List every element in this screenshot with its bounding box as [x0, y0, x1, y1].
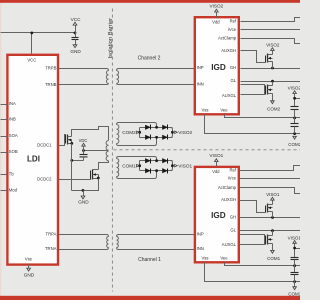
power VISO1 supply above M3 — [266, 192, 280, 200]
diode D3 — [145, 135, 151, 140]
svg-text:GND: GND — [70, 49, 81, 54]
frame bottom — [0, 296, 300, 300]
wire Vss channel2 — [205, 115, 301, 136]
wire GH rail channel1 — [240, 216, 301, 219]
svg-text:IGD: IGD — [211, 211, 226, 220]
wire GL rail channel1 — [240, 229, 301, 232]
power VISO2 supply above IGD2 — [209, 4, 223, 18]
op-amp U3 IGD chip box channel1 — [195, 167, 239, 262]
wire INP channel2 — [117, 69, 195, 71]
capacitor C6 Vee to Vss — [291, 266, 299, 282]
transformer T2 secondary winding — [117, 71, 119, 84]
diode D8 — [162, 168, 168, 173]
wire Q1 drain to primary top — [72, 127, 109, 141]
power VCC supply symbol — [71, 17, 82, 37]
svg-text:COM1: COM1 — [288, 291, 300, 296]
svg-text:GND: GND — [24, 273, 35, 278]
svg-text:TRNB: TRNB — [45, 82, 57, 87]
wire Ref channel1 — [240, 166, 301, 171]
wire GH rail channel2 — [241, 67, 301, 70]
wire INP channel1 — [117, 235, 195, 237]
transformer T1 secondary winding — [117, 237, 119, 248]
diode D1 — [145, 125, 151, 130]
wire TRNB to transformer T2 — [59, 84, 109, 85]
node LDI pin labels — [9, 57, 57, 261]
wire rectifier output channel2 — [171, 128, 174, 138]
wire Tb — [1, 174, 8, 176]
wire Vee channel1 — [225, 263, 301, 268]
ground COM1 below M4 — [267, 250, 280, 261]
svg-text:Vss: Vss — [202, 107, 209, 112]
svg-text:COM2: COM2 — [122, 130, 136, 135]
svg-text:INP: INP — [197, 232, 204, 237]
svg-text:TRPA: TRPA — [46, 232, 57, 237]
diode D7 — [145, 168, 151, 173]
svg-text:Vdd: Vdd — [212, 169, 220, 174]
svg-text:LDI: LDI — [27, 154, 40, 163]
diode D6 — [162, 158, 168, 163]
svg-text:VISO2: VISO2 — [266, 42, 280, 47]
node rectifier mid junctions channel2 — [155, 126, 158, 139]
capacitor C5 VISO1 to Vee — [291, 258, 299, 266]
wire secondary bottom lead channel1 — [117, 171, 157, 179]
wire secondary top lead channel2 — [117, 123, 157, 128]
wire INA — [1, 104, 8, 106]
svg-text:Vee: Vee — [220, 256, 228, 261]
svg-text:INP: INP — [197, 65, 204, 70]
transformer T3 secondary winding channel2 — [117, 125, 119, 144]
wire DCDC2 to Q2 gate — [59, 179, 91, 181]
svg-text:IGD: IGD — [211, 63, 226, 72]
wire secondary top lead channel1 — [117, 157, 157, 161]
svg-text:GH: GH — [230, 65, 236, 70]
wire TRPB to transformer T2 — [59, 69, 109, 71]
wire Q2 drain to primary bottom — [99, 161, 109, 170]
svg-text:INB: INB — [9, 117, 16, 122]
transistor Q2 — [91, 170, 100, 180]
svg-text:VISO1: VISO1 — [178, 163, 192, 168]
transistor Q1 — [66, 135, 74, 145]
svg-text:Ref: Ref — [229, 168, 236, 173]
node IGD2 pin labels — [197, 18, 237, 112]
svg-text:DCDC2: DCDC2 — [37, 176, 52, 181]
power VISO2 supply above M1 — [266, 42, 280, 50]
wire AUXGL channel1 — [240, 235, 265, 245]
svg-text:INN: INN — [197, 246, 204, 251]
ground GND LDI Vss — [24, 265, 35, 278]
transformer T3 primary winding A — [106, 141, 108, 151]
wire SOA — [1, 136, 8, 138]
node COM2 rectifier input — [122, 128, 141, 138]
wire VCC rail — [1, 32, 77, 54]
capacitor C2 VDC — [70, 151, 87, 162]
ground COM2 below M2 — [267, 101, 280, 112]
diode D2 — [162, 125, 168, 130]
svg-text:INN: INN — [197, 82, 204, 87]
transistor M2 aux low side channel2 — [266, 82, 273, 101]
frame top — [0, 0, 300, 3]
svg-text:VDC: VDC — [79, 138, 88, 143]
power VISO2 right column — [288, 86, 302, 107]
svg-text:AUXGL: AUXGL — [222, 242, 237, 247]
svg-text:COM2: COM2 — [267, 106, 280, 111]
wire rectifier bottom branch channel1 — [140, 170, 173, 172]
wire TRPA to transformer T1 — [59, 235, 109, 237]
svg-text:AUXGH: AUXGH — [221, 197, 236, 202]
svg-text:VISO2: VISO2 — [288, 86, 300, 91]
wire rectifier output channel1 — [171, 161, 174, 171]
wire iVce channel2 — [241, 29, 301, 31]
svg-text:INA: INA — [9, 101, 16, 106]
wire Mod — [1, 190, 8, 192]
svg-text:GH: GH — [230, 215, 236, 220]
node VISO1 rectifier output flag — [175, 163, 193, 168]
ground COM2 right column — [288, 136, 301, 147]
transistor M4 aux low side channel1 — [266, 231, 273, 251]
transformer T3 primary winding B — [106, 151, 108, 161]
wire AUXGL channel2 — [241, 85, 265, 95]
svg-text:Mod: Mod — [9, 188, 18, 193]
wire DCDC1 to Q1 gate — [59, 135, 66, 146]
svg-text:ActClamp: ActClamp — [218, 185, 237, 190]
ground GND DCDC — [78, 196, 89, 204]
wire secondary bottom lead channel2 — [117, 138, 157, 146]
svg-text:COM2: COM2 — [288, 142, 300, 147]
capacitor C4 Vee to Vss — [291, 118, 299, 134]
wire Ref channel2 — [241, 18, 301, 22]
wire GL rail channel2 — [241, 80, 301, 83]
capacitor C1 VCC bypass — [72, 38, 79, 45]
ground COM1 right column — [288, 282, 301, 297]
wire Vss channel1 — [205, 263, 301, 284]
transistor M1 aux high side channel2 — [266, 51, 273, 69]
svg-text:COM1: COM1 — [267, 256, 280, 261]
svg-text:Vss: Vss — [202, 256, 209, 261]
svg-text:SOB: SOB — [9, 149, 18, 154]
wire TRNA to transformer T1 — [59, 248, 109, 250]
ground GND top — [70, 45, 81, 54]
wire SOB — [1, 152, 8, 154]
svg-text:Ref: Ref — [230, 18, 237, 23]
wire INN channel1 — [117, 248, 195, 250]
svg-text:Channel 1: Channel 1 — [138, 257, 161, 263]
svg-text:iVce: iVce — [228, 176, 237, 181]
wire INN channel2 — [117, 84, 195, 85]
wire rectifier bottom branch channel2 — [140, 137, 173, 139]
isolation barrier dashed line — [111, 9, 113, 292]
op-amp U2 IGD chip box channel2 — [195, 17, 239, 114]
wire AUXGH channel1 — [240, 201, 266, 213]
svg-text:TRNA: TRNA — [45, 246, 57, 251]
svg-text:Vdd: Vdd — [212, 20, 220, 25]
svg-text:TRPB: TRPB — [45, 65, 56, 70]
svg-text:GND: GND — [78, 199, 89, 204]
op-amp U1 LDI chip box — [7, 55, 58, 265]
wire Q2 source to GND — [84, 179, 99, 196]
wire iVce channel1 — [240, 178, 301, 180]
wire rectifier top branch channel2 — [140, 127, 173, 129]
svg-text:VISO1: VISO1 — [209, 153, 223, 158]
svg-text:VISO1: VISO1 — [288, 235, 300, 240]
svg-text:GL: GL — [231, 78, 237, 83]
wire VDC center tap — [82, 149, 108, 152]
svg-text:VISO2: VISO2 — [178, 130, 192, 135]
svg-text:Vee: Vee — [220, 107, 228, 112]
svg-text:ActClamp: ActClamp — [218, 36, 237, 41]
power VDC supply symbol — [79, 138, 88, 151]
svg-text:COM1: COM1 — [122, 163, 136, 168]
svg-text:Isolation Barrier: Isolation Barrier — [108, 18, 114, 59]
node VISO2 rectifier output flag — [175, 130, 193, 135]
diode D5 — [145, 158, 151, 163]
transistor M3 aux high side channel1 — [266, 201, 273, 218]
wire ActClamp channel2 — [241, 39, 301, 44]
transformer T2 primary winding — [106, 71, 108, 84]
wire Vee channel2 — [225, 115, 301, 120]
transformer T3 secondary winding channel1 — [117, 159, 119, 177]
power VISO1 right column — [288, 235, 302, 257]
diode D4 — [162, 135, 168, 140]
svg-text:VCC: VCC — [71, 17, 82, 22]
svg-text:VCC: VCC — [27, 57, 36, 62]
node IGD1 pin labels — [197, 168, 237, 261]
wire source rail to Q2 — [72, 144, 85, 192]
wire AUXGH channel2 — [241, 51, 266, 63]
wire ActClamp channel1 — [240, 188, 301, 194]
node rectifier mid junctions channel1 — [155, 159, 158, 172]
svg-text:Channel 2: Channel 2 — [138, 55, 161, 61]
frame left tint — [0, 0, 2, 300]
power VISO1 supply above IGD1 — [209, 153, 223, 166]
svg-text:DCDC1: DCDC1 — [37, 142, 52, 147]
wire INB — [1, 119, 8, 121]
svg-text:Vss: Vss — [25, 256, 32, 261]
svg-text:AUXGL: AUXGL — [222, 93, 237, 98]
svg-text:iVce: iVce — [228, 27, 237, 32]
channel separator dashed line — [114, 149, 301, 151]
node COM1 rectifier input — [122, 161, 141, 171]
svg-text:Tb: Tb — [9, 172, 15, 177]
wire rectifier top branch channel1 — [140, 160, 173, 162]
transformer T1 primary winding — [107, 237, 109, 248]
svg-text:VISO2: VISO2 — [209, 4, 223, 9]
capacitor C3 VISO2 to Vee — [291, 107, 299, 118]
svg-text:GL: GL — [230, 228, 236, 233]
svg-text:VISO1: VISO1 — [266, 192, 280, 197]
svg-text:SOA: SOA — [9, 133, 18, 138]
svg-text:AUXGH: AUXGH — [221, 48, 236, 53]
